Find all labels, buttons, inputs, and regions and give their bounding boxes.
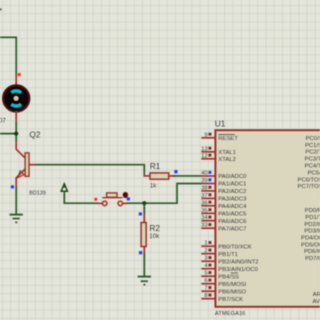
U1 pin 13 (XTAL1) [201,146,236,156]
svg-text:PC3/TMS: PC3/TMS [305,157,320,163]
svg-text:PC0/SCL: PC0/SCL [306,136,320,142]
svg-text:PB2/AIN0/INT2: PB2/AIN0/INT2 [218,259,258,265]
svg-text:36: 36 [201,200,208,206]
svg-text:9: 9 [204,132,207,138]
motor terminal stub top [15,74,17,86]
U1 pin 3 (PB2/AIN0/INT2) [201,256,258,266]
svg-text:PC4/TDO: PC4/TDO [305,164,320,170]
U1 pin 37 (PA3/ADC3) [201,193,247,203]
svg-text:PB4/SS: PB4/SS [218,274,239,280]
svg-text:R1: R1 [150,161,161,171]
svg-text:PC1/SDA: PC1/SDA [305,143,320,149]
blue state square at button right [127,197,130,200]
svg-text:PD2/INT0: PD2/INT0 [304,222,320,228]
svg-text:PA5/ADC5: PA5/ADC5 [218,212,247,218]
transistor Q2 emitter lead [16,169,25,188]
wire: junction down to R2 [143,203,145,214]
junction node at motor/collector [14,132,18,136]
svg-text:PC5/TDI: PC5/TDI [308,170,320,176]
svg-text:RESET: RESET [218,136,238,142]
U1 pin 35 (PA5/ADC5) [201,208,247,218]
ground (R2) [138,277,151,285]
transistor Q2 collector lead [16,141,25,158]
svg-text:PD7/OC2: PD7/OC2 [305,256,320,262]
wire: Q2 base to R1 corner [35,165,144,173]
svg-text:PC6/TOSC1: PC6/TOSC1 [298,177,320,183]
svg-text:PD5/OC1A: PD5/OC1A [301,242,320,248]
svg-text:PA2/ADC2: PA2/ADC2 [218,189,246,195]
stray label fragment top-left [0,8,2,10]
svg-text:XTAL1: XTAL1 [218,150,236,156]
wire: button right to junction [126,202,144,204]
input arrow symbol [61,184,68,192]
svg-text:PD3/INT1: PD3/INT1 [304,229,320,235]
svg-text:AREF: AREF [313,292,320,298]
motor terminal stub bottom [15,111,17,123]
svg-text:38: 38 [201,185,208,191]
U1 pin 33 (PA7/ADC7) [201,223,246,233]
svg-text:PB7/SCK: PB7/SCK [218,297,243,303]
svg-text:34: 34 [201,215,208,221]
wire: left rail at node [0,133,16,135]
junction node at R2 top [142,201,146,205]
svg-text:PA3/ADC3: PA3/ADC3 [218,197,247,203]
U1 pin 9 (RESET) [201,132,238,142]
U1 pin 36 (PA4/ADC4) [201,200,247,210]
ground (Q2 emitter) [10,215,23,223]
svg-text:AVCC: AVCC [312,299,320,305]
svg-text:PC7/TOSC2: PC7/TOSC2 [298,184,320,190]
svg-text:10k: 10k [149,234,160,240]
U1 pin 4 (PB3/AIN1/OC0) [201,263,258,273]
U1 chip body [215,130,320,307]
svg-text:XTAL2: XTAL2 [218,157,236,163]
blue state square at R2 bottom [139,251,142,254]
blue state square at R1 right [174,170,177,173]
transistor Q2 base bar [25,153,29,176]
U1 pin 39 (PA1/ADC1) [201,178,246,188]
U1 pin 7 (PB6/MISO) [201,286,246,296]
blue state square at emitter [11,185,14,188]
R2 top terminal stub [143,214,145,223]
svg-text:Q2: Q2 [29,129,40,139]
transistor Q2 emitter arrowhead [17,171,24,178]
U1 pin 6 (PB5/MOSI) [201,278,246,288]
svg-text:13: 13 [201,146,208,152]
wire: R1 to U1 pin 40 [173,175,202,177]
svg-text:07: 07 [0,117,6,124]
U1 pin 2 (PB1/T1) [201,248,238,258]
svg-text:12: 12 [201,153,208,159]
U1 pin 40 (PA0/ADC0) [201,171,247,181]
svg-text:U1: U1 [215,118,226,128]
svg-text:PD4/OC1B: PD4/OC1B [301,236,320,242]
transistor Q2 base lead stub [29,164,36,166]
button actuator dot [123,192,128,198]
U1 pin 8 (PB7/SCK) [201,293,243,303]
red state square at motor top terminal [18,73,21,76]
wire: power rail to motor top [0,37,16,74]
svg-text:PD1/TXD: PD1/TXD [305,215,320,221]
blue state square at R2 top [139,212,142,215]
svg-text:PA1/ADC1: PA1/ADC1 [218,182,246,188]
svg-text:PA6/ADC6: PA6/ADC6 [218,219,247,225]
resistor R2 body [141,223,146,247]
wire: R2 to ground [143,253,145,276]
svg-text:PA0/ADC0: PA0/ADC0 [218,174,247,180]
push button [102,193,122,206]
svg-text:PB6/MISO: PB6/MISO [218,289,246,295]
R1 right terminal stub [169,175,175,177]
button right terminal stub [123,202,127,204]
svg-text:1k: 1k [150,184,157,190]
U1 pin 1 (PB0/T0/XCK) [201,241,251,251]
svg-text:PD0/RXD: PD0/RXD [305,208,320,214]
svg-text:PB0/T0/XCK: PB0/T0/XCK [218,244,251,250]
svg-text:39: 39 [201,178,208,184]
resistor R1 body [150,173,169,179]
svg-text:37: 37 [201,193,208,199]
svg-text:PD6/ICP1: PD6/ICP1 [304,249,320,255]
R2 bottom terminal stub [143,247,145,254]
svg-text:PB1/T1: PB1/T1 [218,252,238,258]
wire: arrow stem to button [64,191,98,203]
U1 pin 12 (XTAL2) [201,153,236,163]
svg-text:PC2/TCK: PC2/TCK [305,150,320,156]
wire: motor bottom to collector node [15,122,17,142]
svg-text:1: 1 [204,241,207,247]
U1 pin 38 (PA2/ADC2) [201,185,246,195]
svg-text:PB5/MOSI: PB5/MOSI [218,282,246,288]
red state square at button left [94,198,97,201]
svg-text:35: 35 [201,208,208,214]
svg-text:PA4/ADC4: PA4/ADC4 [218,204,247,210]
svg-text:ATMEGA16: ATMEGA16 [215,311,246,317]
svg-text:PA7/ADC7: PA7/ADC7 [218,226,246,232]
svg-text:40: 40 [201,171,208,177]
svg-text:33: 33 [201,223,208,229]
svg-text:7: 7 [204,286,207,292]
button left terminal stub [98,202,102,204]
motor body [3,85,29,111]
wire: emitter to ground [15,187,17,214]
U1 pin 5 (PB4/SS) [201,271,239,281]
R1 left terminal stub [144,172,150,176]
U1 pin 34 (PA6/ADC6) [201,215,247,225]
svg-text:2: 2 [204,248,207,254]
svg-text:PB3/AIN1/OC0: PB3/AIN1/OC0 [218,267,258,273]
wire: U1 pin 39 to button junction [144,184,201,204]
svg-text:BD139: BD139 [29,191,45,197]
svg-text:R2: R2 [149,223,160,233]
